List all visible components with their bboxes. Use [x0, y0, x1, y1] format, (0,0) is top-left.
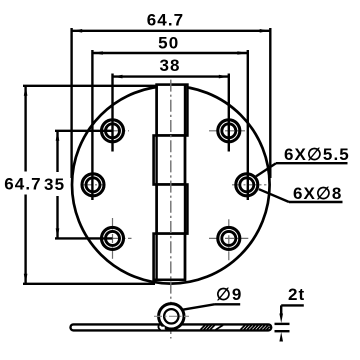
pin knuckle outer	[159, 304, 184, 329]
svg-text:2t: 2t	[288, 285, 305, 304]
hole mid-left centerline cross	[84, 184, 104, 186]
hole mid-right	[236, 174, 258, 196]
dimension 35: arrows	[56, 131, 60, 141]
hole top-right	[218, 120, 240, 142]
dimension 64.7 left: arrows	[24, 86, 28, 96]
svg-text:38: 38	[159, 56, 180, 75]
dimension 64.7 left: dim line	[24, 86, 26, 172]
callout dia 9: underline	[215, 303, 241, 305]
hole top-right centerline cross	[209, 130, 245, 132]
svg-text:6X∅8: 6X∅8	[293, 184, 342, 203]
callout 6X dia 5.5: leader	[256, 163, 276, 176]
svg-text:64.7: 64.7	[147, 10, 185, 29]
svg-text:64.7: 64.7	[4, 174, 42, 193]
side view hatch right patch	[241, 325, 246, 330]
callout 6X dia 8: leader	[259, 189, 289, 202]
callout 6X dia 8: underline	[289, 201, 343, 203]
svg-text:6X∅5.5: 6X∅5.5	[284, 145, 350, 164]
callout dia 9: leader	[182, 304, 215, 310]
side view plate	[71, 324, 272, 330]
svg-text:∅9: ∅9	[216, 285, 242, 304]
dimension 2t: arrow down	[279, 314, 283, 324]
dimension 2t: shoulder line	[275, 305, 304, 341]
vertical centerline	[170, 80, 172, 339]
dimension 35: extension lines	[55, 131, 113, 239]
knuckle segment 1	[157, 85, 188, 136]
hole mid-right centerline cross	[232, 184, 266, 186]
side view section break slant	[216, 325, 224, 330]
hole bottom-right centerline cross	[209, 237, 248, 239]
dimension 38: dim line	[113, 75, 229, 77]
dimension 50: dim line	[93, 52, 248, 54]
pin knuckle inner	[164, 309, 178, 323]
hole bottom-left centerline cross	[96, 237, 132, 239]
dimension 64.7 top: extension lines	[72, 28, 271, 178]
leaf edge right	[184, 85, 186, 280]
hole bottom-left	[102, 227, 124, 249]
leaf edge left	[155, 85, 157, 280]
knuckle segment 4	[154, 234, 185, 280]
dimension 64.7 left: extension lines	[23, 86, 157, 284]
dimension 35: dim line	[56, 131, 58, 172]
dimension 2t: lower tail	[280, 339, 282, 342]
hole bottom-right	[218, 227, 240, 249]
dimension 64.7 top: dim line	[72, 30, 271, 32]
hole top-left	[82, 120, 258, 250]
dimension 50: extension lines	[92, 50, 247, 200]
svg-text:50: 50	[158, 34, 179, 53]
knuckle segment 2	[154, 136, 185, 185]
side view hatch left patch	[201, 325, 270, 330]
dimension 64.7 top: arrows	[72, 29, 82, 33]
dimension 38: arrows	[113, 75, 123, 79]
callout 6X dia 5.5: underline	[276, 162, 348, 164]
dimension 50: arrows	[93, 51, 103, 55]
dimension 38: extension lines	[113, 74, 229, 152]
pin curl channel	[158, 327, 165, 330]
hole mid-left	[82, 174, 104, 196]
svg-text:35: 35	[44, 175, 65, 194]
hinge body circle	[72, 86, 270, 284]
dimension 2t: arrow up	[279, 332, 283, 342]
dimension 2t: extension bars	[275, 323, 290, 325]
pin horizontal centerline	[154, 315, 189, 317]
knuckle segment 3	[157, 185, 188, 234]
hole top-left centerline cross	[84, 131, 267, 261]
